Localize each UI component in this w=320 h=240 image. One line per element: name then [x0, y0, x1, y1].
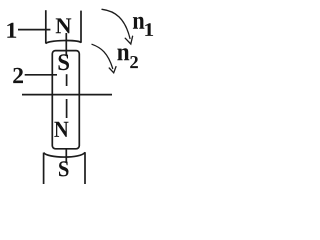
label rotor S [59, 54, 70, 70]
arrowhead n1 [125, 36, 132, 44]
arrowhead n2 [109, 67, 116, 73]
label n2 sub [130, 56, 138, 68]
shaft upper segment [65, 33, 67, 56]
rotor dashed axis dash 2 [66, 99, 68, 118]
leader line for label 1 [18, 29, 50, 31]
label n1 n [133, 17, 145, 29]
curved arrow n2 [92, 44, 113, 68]
label n1 sub [145, 23, 153, 36]
top pole piece left edge [45, 10, 47, 43]
curved arrow n1 [102, 9, 130, 38]
rotor bar magnet outline [52, 51, 79, 149]
label bottom S [59, 161, 69, 176]
rotor dashed axis dash 1 [66, 74, 68, 86]
leader line for label 2 [25, 74, 57, 76]
horizontal axis line [22, 94, 112, 96]
shaft lower segment [65, 149, 67, 163]
label label 2 [13, 68, 23, 83]
label top N [56, 18, 72, 33]
label n2 n [117, 48, 129, 60]
label rotor N [54, 122, 68, 137]
top pole concave face (arc) [46, 41, 81, 44]
bottom pole piece right edge [84, 152, 86, 184]
label label 1 [7, 23, 16, 38]
top pole piece right edge [80, 11, 82, 43]
bottom pole piece left edge [43, 153, 45, 184]
bottom pole concave face (arc) [44, 152, 85, 157]
